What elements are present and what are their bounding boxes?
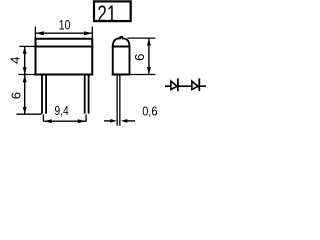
svg-text:10: 10	[59, 17, 71, 33]
svg-text:6: 6	[9, 92, 24, 99]
svg-text:0,6: 0,6	[142, 104, 157, 119]
svg-text:6: 6	[132, 54, 147, 61]
svg-text:21: 21	[97, 0, 116, 26]
svg-text:4: 4	[8, 57, 23, 64]
svg-text:9,4: 9,4	[55, 103, 69, 118]
